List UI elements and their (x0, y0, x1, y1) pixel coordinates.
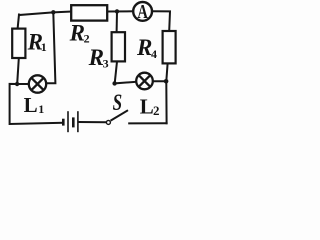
node C junction (164, 79, 169, 84)
wire battery right to switch pivot (79, 121, 106, 123)
battery plate long (pos) (77, 111, 79, 132)
svg-text:R: R (136, 35, 152, 60)
resistor R2 (71, 5, 107, 20)
svg-text:L: L (140, 94, 154, 118)
svg-text:2: 2 (84, 31, 90, 45)
wire top junction down to R3 (116, 12, 118, 33)
battery (63, 111, 78, 132)
resistor R1 (12, 29, 25, 58)
ammeter U1 circle (133, 2, 152, 21)
wire top-left corner down to R1 (18, 15, 19, 29)
svg-text:3: 3 (103, 57, 109, 71)
svg-text:L: L (24, 93, 38, 117)
battery plate short (neg) (72, 117, 75, 127)
wire R4 bottom to node C to bottom-right corner (166, 64, 167, 124)
battery plate long (pos) (67, 111, 69, 132)
node junction top-right (115, 9, 119, 13)
lamp L1 (29, 75, 46, 92)
svg-text:4: 4 (151, 47, 157, 61)
wire R1 bottom to node A (17, 58, 19, 84)
battery plate short (neg) (62, 119, 65, 126)
resistor R3 (112, 32, 125, 61)
wire node B to L2 (115, 82, 136, 84)
wire L2 right to node C (153, 80, 166, 82)
wire bottom-right segment to switch contact (129, 122, 166, 124)
wire top-left segment (19, 12, 71, 15)
wire ammeter right to R4 corner (153, 11, 170, 31)
wire top R2 to junction to ammeter (107, 10, 133, 12)
wire R3 bottom to node B (115, 62, 117, 84)
node B junction (112, 81, 116, 85)
svg-text:1: 1 (41, 40, 47, 54)
switch S pivot (106, 120, 110, 124)
lamp L2 (136, 73, 153, 90)
resistor R4 (163, 31, 176, 63)
switch S lever (111, 110, 128, 120)
svg-text:2: 2 (153, 103, 160, 118)
wire node A left and left border down to battery (10, 84, 63, 124)
wire L1 right riser up to top junction (47, 12, 55, 83)
svg-text:1: 1 (38, 102, 44, 116)
svg-text:R: R (69, 20, 85, 45)
svg-text:S: S (113, 90, 123, 115)
node junction top-left (51, 10, 55, 14)
node A junction (15, 82, 19, 86)
wire node A to L1 (17, 83, 28, 85)
svg-text:A: A (137, 2, 148, 23)
svg-text:R: R (88, 45, 104, 70)
